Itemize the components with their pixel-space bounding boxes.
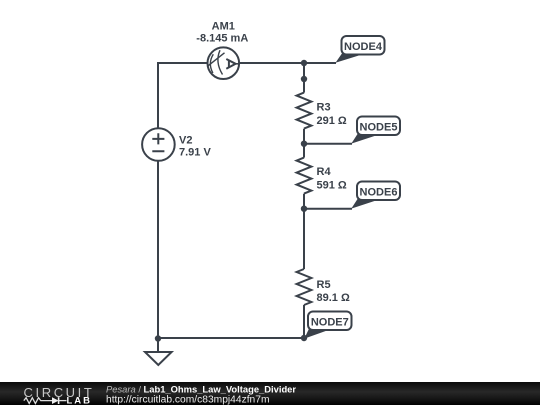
- junction R3 upper terminal: [301, 76, 307, 82]
- footer title: [106, 383, 296, 394]
- ammeter AM1: [208, 47, 240, 79]
- logo diode: [52, 397, 67, 404]
- label AM1: [212, 21, 235, 33]
- label R3: [317, 102, 331, 114]
- footer url: [106, 395, 270, 405]
- svg-text:NODE5: NODE5: [360, 121, 398, 133]
- wire left vertical lower (V2 to bottom rail): [157, 161, 159, 338]
- logo resistor zigzag: [24, 398, 52, 404]
- svg-text:V2: V2: [179, 135, 192, 147]
- junction NODE6 (R4/R5): [301, 206, 307, 212]
- label R4: [317, 166, 332, 178]
- resistor R3: [297, 93, 312, 129]
- svg-text:NODE7: NODE7: [311, 316, 349, 328]
- svg-text:R5: R5: [317, 279, 331, 291]
- logo LAB: [67, 396, 93, 405]
- svg-text:7.91 V: 7.91 V: [179, 147, 211, 159]
- svg-text:http://circuitlab.com/c83mpj44: http://circuitlab.com/c83mpj44zfn7m: [106, 395, 270, 405]
- wire right vertical R3-R4 link: [303, 129, 305, 158]
- junction NODE7 (bottom rail): [301, 335, 307, 341]
- junction NODE5 (R3/R4): [301, 141, 307, 147]
- wire bottom horizontal: [158, 337, 304, 339]
- svg-text:591 Ω: 591 Ω: [317, 180, 347, 192]
- svg-text:89.1 Ω: 89.1 Ω: [317, 292, 350, 304]
- wire NODE6 stub: [304, 208, 352, 210]
- svg-text:NODE4: NODE4: [344, 41, 383, 53]
- wire right vertical R4-R5 link: [303, 194, 305, 269]
- svg-text:AM1: AM1: [212, 21, 235, 33]
- svg-text:Pesara / Lab1_Ohms_Law_Voltage: Pesara / Lab1_Ohms_Law_Voltage_Divider: [106, 383, 296, 394]
- svg-text:R3: R3: [317, 102, 331, 114]
- node flag NODE6: [351, 182, 400, 209]
- label V2: [179, 135, 192, 147]
- wire ground stub: [157, 338, 159, 352]
- ground: [145, 352, 172, 365]
- wire NODE5 stub: [304, 143, 352, 145]
- svg-text:NODE6: NODE6: [360, 186, 398, 198]
- junction ground: [155, 335, 161, 341]
- wire top-right horizontal (AM1 right to NODE4 anchor): [239, 62, 336, 64]
- node flag NODE5: [351, 117, 400, 144]
- resistor R4: [297, 158, 312, 194]
- wire right vertical R3 top lead: [303, 63, 305, 93]
- wire left vertical upper (top rail to V2): [157, 62, 159, 128]
- svg-text:LAB: LAB: [67, 396, 93, 405]
- junction at top rail / R3: [301, 60, 307, 66]
- wire right vertical R5 bottom lead: [303, 305, 305, 338]
- node flag NODE4: [336, 36, 385, 63]
- resistor R5: [297, 269, 312, 305]
- svg-text:R4: R4: [317, 166, 332, 178]
- logo CIRCUIT: [24, 385, 95, 400]
- footer bar: [0, 382, 540, 405]
- value label 291 ohm: [317, 115, 347, 127]
- label R5: [317, 279, 331, 291]
- voltage source V2: [142, 128, 175, 161]
- value label -8.145 mA: [196, 33, 248, 45]
- wire top-left horizontal (V2 top to AM1 left): [158, 62, 208, 64]
- value label 89.1 ohm: [317, 292, 350, 304]
- svg-text:-8.145 mA: -8.145 mA: [196, 33, 248, 45]
- svg-text:291 Ω: 291 Ω: [317, 115, 347, 127]
- value label 7.91 V: [179, 147, 211, 159]
- node flag NODE7: [304, 312, 351, 339]
- value label 591 ohm: [317, 180, 347, 192]
